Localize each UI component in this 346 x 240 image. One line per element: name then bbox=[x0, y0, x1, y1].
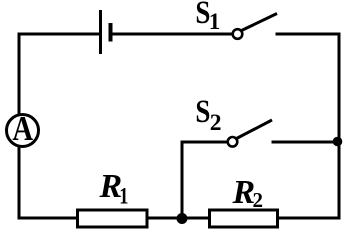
svg-text:1: 1 bbox=[209, 9, 221, 34]
svg-text:S: S bbox=[195, 93, 210, 130]
svg-text:2: 2 bbox=[253, 188, 264, 212]
svg-text:2: 2 bbox=[210, 110, 222, 136]
svg-text:A: A bbox=[12, 108, 33, 147]
svg-text:1: 1 bbox=[119, 182, 128, 209]
